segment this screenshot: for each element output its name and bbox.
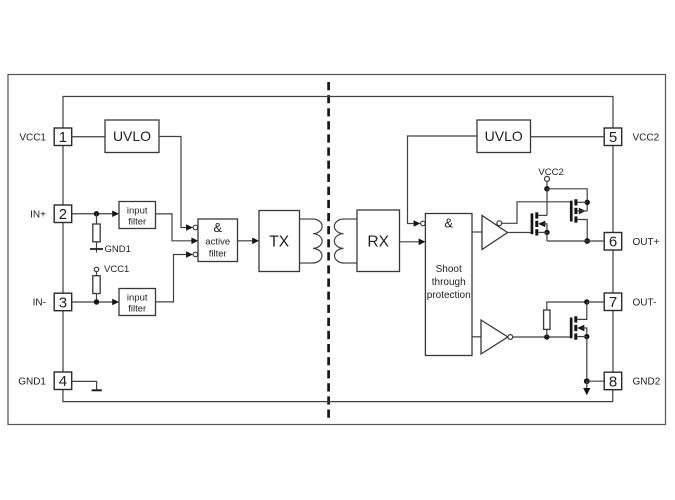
input filter 1 (119, 202, 156, 229)
active filter block (198, 219, 238, 262)
wire VCC2 rail to Q2 source (547, 189, 587, 211)
transformer primary coil (313, 219, 322, 263)
lower driver inverter (481, 320, 508, 354)
bubble shoot-through inverted input (421, 221, 426, 226)
wire Q3 source down to GND2 node (586, 337, 588, 382)
wire Q3 source (577, 336, 587, 338)
wire Q1 drain (538, 214, 547, 216)
svg-text:TX: TX (269, 233, 289, 250)
svg-text:active: active (205, 237, 230, 248)
pin 7 box (604, 293, 622, 311)
ground GND1 tick at R1 (90, 248, 103, 250)
node Q1 source tie (544, 230, 549, 235)
pin 5 box (604, 128, 622, 146)
transformer secondary coil (334, 219, 343, 263)
wire GND2 node to pin8 (587, 380, 604, 382)
input filter 2 (119, 289, 156, 316)
svg-text:OUT+: OUT+ (633, 237, 660, 248)
svg-text:7: 7 (609, 294, 617, 311)
svg-text:GND1: GND1 (18, 376, 46, 387)
arrow into TX (252, 238, 259, 245)
arrow into input filter 2 (112, 299, 119, 306)
wire junction to resistor R1 (96, 214, 98, 224)
svg-text:input: input (127, 292, 148, 303)
wire right pin column pin6-pin7 (612, 250, 614, 293)
wire secondary coil bottom to RX (344, 262, 358, 264)
svg-text:GND1: GND1 (105, 244, 131, 255)
svg-text:filter: filter (128, 303, 146, 314)
transistor Q1 channel segments (535, 212, 538, 218)
wire shoot-through to upper driver (472, 231, 482, 233)
bubble lower inverter output (508, 335, 513, 340)
node gate resistor junction (544, 334, 549, 339)
wire Q3 body to source (583, 328, 587, 337)
transistor Q2 PMOS gate bar (570, 201, 573, 222)
arrow into active filter top input (186, 224, 193, 231)
wire bubble output to PMOS gate (502, 202, 570, 224)
bubble on upper driver complementary output (497, 221, 502, 226)
svg-text:OUT-: OUT- (633, 297, 657, 308)
bubble active filter top input (193, 225, 198, 230)
svg-text:filter: filter (128, 216, 146, 227)
wire Q2 drain down to OUT+ (577, 220, 587, 242)
pin 8 box (604, 372, 622, 390)
node junction on IN+ wire (94, 211, 99, 216)
svg-text:IN-: IN- (33, 298, 46, 309)
wire active filter to TX (238, 240, 253, 242)
wire lower inverter to NMOS Q3 gate (513, 336, 570, 338)
UVLO U1 (105, 120, 159, 153)
svg-text:5: 5 (609, 129, 617, 146)
arrow into input filter 1 (112, 210, 119, 217)
resistor R3 (544, 310, 550, 329)
svg-text:GND2: GND2 (633, 377, 661, 388)
wire VCC2 rail down to Q1 drain (546, 189, 548, 216)
arrow into shoot-through input (419, 239, 426, 246)
wire RX to shoot-through block (400, 241, 419, 243)
pin 3 box (54, 293, 71, 311)
node OUT+ junction (584, 238, 590, 244)
wire Q1 body to source (544, 224, 548, 233)
svg-text:UVLO: UVLO (113, 128, 151, 144)
wire left pin column pin2-pin3 (62, 223, 64, 294)
node junction on IN- wire (94, 299, 99, 304)
resistor R1 (IN+ pulldown) (93, 224, 100, 242)
wire VCC1 top bus from pin1 to pin5 (63, 97, 613, 129)
Q3 body arrow (577, 325, 584, 332)
wire R2 to IN- junction (96, 294, 98, 303)
transistor Q1 NMOS gate bar (531, 213, 534, 234)
wire left pin column pin1-pin2 (62, 146, 64, 206)
svg-text:VCC2: VCC2 (633, 132, 660, 143)
RX block (357, 210, 400, 272)
svg-text:1: 1 (59, 129, 67, 146)
arrow into shoot-through inverted input (414, 220, 421, 227)
pin 2 box (54, 205, 71, 223)
svg-text:protection: protection (427, 290, 471, 301)
transistor Q3 NMOS gate bar (570, 318, 573, 339)
VCC2 terminal circle (545, 176, 550, 181)
VCC1 terminal circle (94, 267, 98, 271)
wire left pin column pin3-pin4 (62, 311, 64, 372)
wire input filter 1 to active filter middle input (156, 214, 192, 241)
ground GND1 tick at pin4 (92, 389, 102, 391)
svg-text:IN+: IN+ (30, 209, 46, 220)
wire Q3 drain up to OUT- (577, 302, 587, 319)
wire TX to primary coil bottom (300, 262, 314, 264)
upper driver buffer (482, 216, 508, 250)
svg-text:VCC1: VCC1 (104, 264, 129, 275)
svg-text:through: through (432, 277, 466, 288)
transistor Q2 channel segments (574, 199, 577, 205)
shoot through protection block (425, 214, 472, 356)
wire pin2 to input filter 1 (72, 213, 113, 215)
wire bottom ground bus pin4 to pin8 (63, 390, 613, 402)
svg-text:4: 4 (59, 373, 67, 390)
arrow into active filter middle input (191, 238, 198, 245)
svg-text:filter: filter (209, 249, 227, 260)
node OUT- junction at R3 rail (584, 299, 589, 304)
svg-text:3: 3 (59, 294, 67, 311)
pin 1 box (54, 128, 71, 146)
svg-text:&: & (213, 220, 222, 235)
wire secondary coil top to RX (344, 218, 358, 220)
svg-text:Shoot: Shoot (436, 264, 462, 275)
wire Q1 source to OUT+ rail (546, 232, 548, 241)
transistor Q3 channel segments (574, 316, 577, 322)
node Q3 source tie (584, 334, 589, 339)
ground GND2 arrow (586, 381, 588, 388)
wire R3 bottom to gate node (546, 329, 548, 337)
svg-text:RX: RX (367, 233, 389, 250)
wire UVLO2 to pin5 (531, 136, 605, 138)
wire Q2 body (577, 210, 587, 212)
outer border frame (8, 75, 666, 425)
wire TX to primary coil top (300, 218, 314, 220)
Q2 body arrow (points out) (579, 208, 586, 215)
wire right pin column pin5-pin6 (612, 146, 614, 233)
wire shoot-through to lower driver (472, 336, 481, 338)
wire R1 to ground (96, 242, 98, 253)
svg-text:6: 6 (609, 234, 617, 251)
svg-text:&: & (444, 216, 453, 231)
wire OUT- rail to pin7 (587, 301, 604, 303)
bubble active filter bottom input (193, 252, 198, 257)
wire pin4 to ground symbol (72, 381, 97, 390)
node GND2 junction (584, 378, 590, 384)
wire Q1 source (538, 231, 547, 233)
wire pin1 to UVLO1 (72, 136, 105, 138)
resistor R2 (IN- pullup) (93, 276, 100, 294)
wire Q2 top terminal (577, 201, 587, 203)
Q1 body arrow (538, 221, 545, 228)
arrow into active filter bottom input (186, 251, 193, 258)
svg-text:UVLO: UVLO (485, 128, 523, 144)
isolation barrier (dashed) (327, 82, 330, 420)
wire input filter 2 to active filter bottom input (156, 255, 187, 302)
svg-text:2: 2 (59, 206, 67, 223)
wire upper driver apex to NMOS Q1 gate (508, 232, 531, 234)
wire UVLO2 to shoot-through inverted input (408, 136, 478, 224)
wire pin3 to input filter 2 (72, 301, 113, 303)
wire OUT+ rail to pin6 (547, 240, 604, 242)
svg-text:input: input (127, 205, 148, 216)
wire VCC1 terminal to resistor R2 (96, 272, 98, 276)
svg-text:VCC1: VCC1 (19, 132, 46, 143)
node Q2 source/body tie (585, 200, 590, 205)
TX block (259, 211, 300, 272)
node VCC2 rail junction (544, 186, 550, 192)
wire right pin column pin7-pin8 (612, 311, 614, 373)
pin 4 box (54, 372, 71, 390)
wire R3 top to OUT- rail (547, 302, 587, 310)
wire VCC2 terminal down (546, 181, 548, 188)
svg-text:VCC2: VCC2 (538, 167, 563, 178)
pin 6 box (604, 233, 622, 251)
UVLO U2 (477, 120, 531, 153)
wire UVLO1 to active filter inverted input (159, 137, 186, 228)
svg-text:8: 8 (609, 373, 617, 390)
